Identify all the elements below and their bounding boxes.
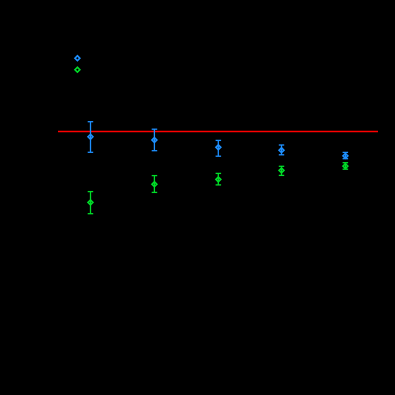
green point 5 error bar <box>279 166 284 175</box>
blue point 6 error bar <box>343 152 349 158</box>
red reference line <box>58 131 378 133</box>
blue point 2 error bar <box>88 122 94 153</box>
blue point 6 marker <box>343 153 348 158</box>
green data series <box>75 67 348 213</box>
blue point 5 error bar <box>279 145 284 155</box>
green point 4 marker <box>216 177 221 182</box>
blue point 3 error bar <box>152 129 158 151</box>
blue point 1 marker <box>75 56 80 61</box>
green point 3 marker <box>152 182 157 187</box>
green point 2 error bar <box>88 192 94 214</box>
green point 2 marker <box>88 200 93 205</box>
green point 5 marker <box>279 168 284 173</box>
green point 1 marker <box>75 67 80 72</box>
green point 6 marker <box>343 164 348 169</box>
green point 4 error bar <box>216 173 222 185</box>
green point 6 error bar <box>343 163 349 170</box>
blue data series <box>75 56 348 159</box>
green point 3 error bar <box>152 176 158 193</box>
blue point 4 marker <box>216 145 221 150</box>
blue point 3 marker <box>152 138 157 143</box>
blue point 2 marker <box>88 134 93 139</box>
blue point 5 marker <box>279 148 284 153</box>
blue point 4 error bar <box>216 140 222 156</box>
